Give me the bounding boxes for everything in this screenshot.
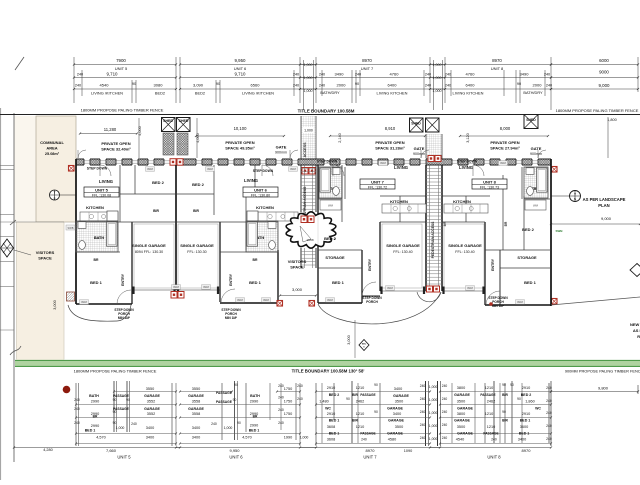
svg-text:3400: 3400 — [192, 436, 200, 440]
svg-text:240: 240 — [74, 398, 80, 402]
svg-text:90: 90 — [132, 82, 136, 86]
svg-text:240: 240 — [491, 438, 497, 442]
svg-text:PRIVATE OPEN: PRIVATE OPEN — [101, 141, 130, 146]
svg-text:240: 240 — [131, 422, 137, 426]
svg-text:3552: 3552 — [147, 400, 155, 404]
svg-text:10,100: 10,100 — [234, 126, 247, 131]
svg-text:SHED: SHED — [179, 119, 189, 123]
svg-text:VISITORS: VISITORS — [36, 250, 55, 255]
svg-text:SINGLE GARAGE: SINGLE GARAGE — [448, 243, 482, 248]
svg-text:2910: 2910 — [522, 386, 530, 390]
svg-text:11,280: 11,280 — [104, 127, 117, 132]
svg-text:1800MM PROPOSE PALING TIMBER F: 1800MM PROPOSE PALING TIMBER FENCE — [556, 108, 639, 113]
svg-text:240: 240 — [546, 399, 552, 403]
svg-text:90: 90 — [374, 383, 378, 387]
svg-text:90: 90 — [233, 398, 237, 402]
svg-text:AREA: AREA — [46, 146, 57, 151]
svg-text:4580: 4580 — [388, 438, 396, 442]
svg-text:BED 1: BED 1 — [520, 419, 531, 423]
svg-text:3400: 3400 — [518, 438, 526, 442]
svg-text:GARAGE: GARAGE — [188, 407, 204, 411]
svg-text:1,000: 1,000 — [429, 411, 438, 415]
svg-text:4,570: 4,570 — [242, 436, 252, 440]
svg-text:STEP DOWN: STEP DOWN — [87, 167, 108, 171]
svg-text:240: 240 — [293, 73, 299, 77]
svg-text:240: 240 — [420, 423, 426, 427]
svg-text:3400: 3400 — [192, 426, 200, 430]
svg-text:1210: 1210 — [487, 425, 495, 429]
svg-text:SHED: SHED — [411, 122, 421, 126]
svg-text:4,570: 4,570 — [96, 436, 106, 440]
svg-text:SPACE: SPACE — [38, 256, 52, 261]
svg-text:3500: 3500 — [395, 425, 403, 429]
svg-text:90: 90 — [517, 82, 521, 86]
svg-text:3,000: 3,000 — [53, 300, 57, 310]
svg-text:LIVING: LIVING — [459, 165, 473, 170]
svg-text:T: T — [574, 192, 576, 196]
svg-text:UNIT 6: UNIT 6 — [234, 66, 247, 71]
svg-text:240: 240 — [420, 384, 426, 388]
svg-text:240: 240 — [77, 73, 83, 77]
svg-text:90: 90 — [234, 383, 238, 387]
svg-text:WM: WM — [533, 204, 539, 208]
svg-text:240: 240 — [445, 84, 451, 88]
svg-text:FFL :130.72: FFL :130.72 — [368, 185, 387, 189]
svg-text:0918: 0918 — [517, 300, 523, 304]
svg-text:BED 2: BED 2 — [329, 393, 340, 397]
svg-text:GARAGE: GARAGE — [144, 407, 160, 411]
svg-text:WC: WC — [325, 407, 331, 411]
svg-text:LIVING /KITCHEN: LIVING /KITCHEN — [91, 91, 123, 96]
svg-text:KITCHEN: KITCHEN — [390, 199, 408, 204]
svg-text:BR: BR — [253, 414, 258, 418]
svg-text:240: 240 — [75, 84, 81, 88]
svg-text:PASSAGE: PASSAGE — [360, 393, 375, 397]
svg-text:6000: 6000 — [599, 58, 609, 63]
svg-text:BATH: BATH — [250, 394, 260, 398]
svg-text:0918: 0918 — [147, 167, 153, 171]
svg-text:GARAGE: GARAGE — [454, 419, 470, 423]
svg-text:1,000: 1,000 — [304, 129, 313, 133]
svg-text:T: T — [54, 191, 56, 195]
svg-text:1,000: 1,000 — [116, 426, 125, 430]
svg-text:GATE: GATE — [414, 146, 425, 151]
svg-text:2990: 2990 — [91, 424, 99, 428]
svg-text:1210: 1210 — [356, 412, 364, 416]
svg-text:1,000: 1,000 — [429, 437, 438, 441]
svg-text:1750: 1750 — [284, 412, 292, 416]
svg-text:240: 240 — [442, 397, 448, 401]
svg-text:AS PER COUNCIL: AS PER COUNCIL — [633, 328, 640, 333]
svg-text:0918: 0918 — [290, 167, 296, 171]
svg-text:240: 240 — [211, 422, 217, 426]
svg-text:FFL :130.73: FFL :130.73 — [480, 185, 499, 189]
svg-text:BIR: BIR — [193, 209, 199, 213]
svg-text:900mm: 900mm — [275, 151, 287, 155]
svg-text:240: 240 — [546, 386, 552, 390]
svg-text:3608: 3608 — [327, 438, 335, 442]
svg-text:3550: 3550 — [192, 387, 200, 391]
svg-text:2462: 2462 — [487, 400, 495, 404]
svg-text:3800: 3800 — [457, 412, 465, 416]
svg-text:GARAGE: GARAGE — [387, 407, 403, 411]
svg-text:3400: 3400 — [393, 412, 401, 416]
svg-text:1,000: 1,000 — [429, 424, 438, 428]
svg-text:8970: 8970 — [362, 58, 372, 63]
svg-text:1800MM PROPOSE PALING TIMBER F: 1800MM PROPOSE PALING TIMBER FENCE — [74, 369, 157, 374]
svg-text:2000: 2000 — [337, 83, 347, 88]
svg-text:6560: 6560 — [251, 83, 261, 88]
svg-text:GARAGE: GARAGE — [457, 407, 473, 411]
svg-text:BR: BR — [94, 258, 99, 262]
svg-text:PASSAGE: PASSAGE — [480, 393, 495, 397]
svg-text:240: 240 — [74, 421, 80, 425]
svg-text:7900: 7900 — [116, 58, 126, 63]
svg-text:BATH/DRY: BATH/DRY — [320, 90, 340, 95]
svg-text:2000: 2000 — [533, 83, 543, 88]
svg-text:90: 90 — [237, 421, 241, 425]
svg-text:UNIT 7: UNIT 7 — [371, 180, 384, 185]
svg-text:1,000: 1,000 — [433, 63, 442, 67]
svg-text:BED 2: BED 2 — [522, 227, 535, 232]
svg-text:UNIT 7: UNIT 7 — [363, 454, 377, 459]
svg-text:0918: 0918 — [81, 300, 87, 304]
svg-text:WM: WM — [328, 204, 334, 208]
svg-text:4540: 4540 — [100, 83, 110, 88]
svg-text:BED 1: BED 1 — [329, 432, 340, 436]
svg-text:9000: 9000 — [599, 70, 609, 75]
svg-text:BR: BR — [253, 258, 258, 262]
svg-text:0918: 0918 — [207, 167, 213, 171]
svg-text:BIR: BIR — [153, 209, 159, 213]
svg-text:9,000: 9,000 — [599, 83, 611, 88]
svg-text:9,000: 9,000 — [601, 216, 612, 221]
svg-text:MIN 1M²: MIN 1M² — [492, 304, 504, 308]
svg-text:240: 240 — [546, 424, 552, 428]
svg-text:SPACE 27.94m²: SPACE 27.94m² — [490, 146, 520, 151]
svg-text:90: 90 — [517, 397, 521, 401]
svg-text:PASSAGE: PASSAGE — [483, 432, 498, 436]
svg-text:WC: WC — [535, 407, 541, 411]
svg-text:3500: 3500 — [457, 425, 465, 429]
svg-text:KITCHEN: KITCHEN — [256, 205, 274, 210]
svg-text:240: 240 — [442, 436, 448, 440]
svg-text:240: 240 — [361, 438, 367, 442]
svg-text:4,000: 4,000 — [138, 126, 142, 136]
svg-text:240: 240 — [546, 411, 552, 415]
svg-text:1210: 1210 — [485, 386, 493, 390]
svg-text:3,000: 3,000 — [347, 335, 351, 345]
svg-text:90: 90 — [502, 383, 506, 387]
svg-text:PEDESTRIAN ACCESS: PEDESTRIAN ACCESS — [431, 221, 435, 259]
svg-text:0918: 0918 — [380, 161, 386, 165]
svg-text:3,000: 3,000 — [292, 287, 303, 292]
svg-text:SPACE 31.28m²: SPACE 31.28m² — [375, 146, 405, 151]
svg-text:GARAGE: GARAGE — [144, 394, 160, 398]
svg-text:UNIT 8: UNIT 8 — [491, 66, 504, 71]
svg-text:240: 240 — [297, 384, 303, 388]
svg-text:COMMUNAL: COMMUNAL — [40, 140, 64, 145]
svg-text:NEW CROSSOVER: NEW CROSSOVER — [630, 322, 640, 327]
svg-text:3400: 3400 — [394, 387, 402, 391]
svg-text:3490: 3490 — [520, 72, 530, 77]
svg-text:240: 240 — [74, 407, 80, 411]
svg-text:3500: 3500 — [457, 400, 465, 404]
svg-text:STEP DOWN: STEP DOWN — [457, 160, 478, 164]
svg-text:240: 240 — [297, 397, 303, 401]
svg-text:9,800: 9,800 — [598, 386, 609, 391]
svg-text:BED 2: BED 2 — [324, 236, 337, 241]
svg-text:90: 90 — [126, 398, 130, 402]
svg-text:BED2: BED2 — [195, 91, 205, 96]
svg-text:PASSAGE: PASSAGE — [360, 432, 375, 436]
svg-text:VISITORS: VISITORS — [288, 259, 307, 264]
svg-text:90: 90 — [510, 383, 514, 387]
svg-text:1,480: 1,480 — [319, 400, 329, 404]
svg-text:4,000: 4,000 — [196, 133, 200, 143]
svg-text:1990: 1990 — [284, 436, 292, 440]
svg-text:1750: 1750 — [284, 387, 292, 391]
svg-text:BED 1: BED 1 — [329, 419, 340, 423]
svg-text:4760: 4760 — [390, 72, 400, 77]
svg-text:90: 90 — [216, 82, 220, 86]
svg-text:1,000: 1,000 — [304, 76, 313, 80]
svg-text:UNIT 6: UNIT 6 — [254, 188, 267, 193]
svg-text:4540: 4540 — [456, 438, 464, 442]
svg-text:240: 240 — [355, 73, 361, 77]
svg-text:240: 240 — [442, 410, 448, 414]
svg-text:1,000: 1,000 — [429, 398, 438, 402]
svg-text:BED2: BED2 — [155, 91, 165, 96]
svg-text:BED 1: BED 1 — [90, 280, 103, 285]
svg-text:GARAGE: GARAGE — [387, 432, 403, 436]
svg-text:8094 FFL: 130.30: 8094 FFL: 130.30 — [135, 250, 163, 254]
svg-text:3558: 3558 — [192, 400, 200, 404]
svg-text:3500: 3500 — [395, 400, 403, 404]
svg-text:BR: BR — [443, 221, 447, 226]
svg-text:1,860: 1,860 — [525, 400, 535, 404]
svg-text:240: 240 — [319, 73, 325, 77]
svg-text:2990: 2990 — [91, 400, 99, 404]
svg-text:LIVING: LIVING — [394, 165, 408, 170]
svg-text:KITCHEN: KITCHEN — [453, 199, 471, 204]
svg-text:240: 240 — [293, 84, 299, 88]
svg-text:3800: 3800 — [457, 386, 465, 390]
svg-text:1090: 1090 — [404, 449, 412, 453]
svg-text:SEC: SEC — [362, 343, 367, 345]
svg-text:3600: 3600 — [520, 425, 528, 429]
svg-text:FFL :130.08: FFL :130.08 — [92, 193, 111, 197]
svg-text:90: 90 — [355, 82, 359, 86]
svg-text:1,000: 1,000 — [433, 89, 442, 93]
svg-text:90: 90 — [346, 397, 350, 401]
svg-text:LIVING KITCHEN: LIVING KITCHEN — [453, 91, 484, 96]
svg-text:3608: 3608 — [327, 425, 335, 429]
svg-text:2462: 2462 — [356, 400, 364, 404]
svg-text:3552: 3552 — [147, 412, 155, 416]
svg-text:ENTRY: ENTRY — [121, 273, 125, 286]
svg-text:BATH/DRY: BATH/DRY — [523, 90, 543, 95]
svg-text:7,660: 7,660 — [106, 448, 117, 453]
svg-text:90: 90 — [374, 410, 378, 414]
svg-text:GARAGE: GARAGE — [457, 432, 473, 436]
svg-text:13/08: 13/08 — [307, 238, 314, 242]
svg-text:UNIT 5: UNIT 5 — [115, 66, 128, 71]
svg-text:UNIT 6: UNIT 6 — [229, 454, 243, 459]
svg-text:240: 240 — [420, 410, 426, 414]
svg-text:9,950: 9,950 — [235, 58, 247, 63]
svg-text:3550: 3550 — [146, 387, 154, 391]
svg-text:BED 1: BED 1 — [85, 429, 96, 433]
svg-text:3490: 3490 — [335, 72, 345, 77]
svg-text:8,910: 8,910 — [385, 126, 396, 131]
svg-text:6400: 6400 — [388, 83, 398, 88]
svg-text:FFL: 130.40: FFL: 130.40 — [393, 250, 412, 254]
svg-text:S: S — [53, 196, 55, 200]
svg-text:0918: 0918 — [173, 285, 179, 289]
svg-text:KITCHEN: KITCHEN — [86, 205, 104, 210]
svg-text:FFL: 130.40: FFL: 130.40 — [455, 250, 474, 254]
svg-text:90: 90 — [113, 398, 117, 402]
svg-text:BIR: BIR — [352, 393, 358, 397]
svg-text:8970: 8970 — [492, 58, 502, 63]
svg-text:3,090: 3,090 — [193, 83, 204, 88]
svg-text:GATE: GATE — [276, 145, 287, 150]
svg-text:UNIT 5: UNIT 5 — [95, 188, 108, 193]
svg-text:25.08m²: 25.08m² — [45, 152, 60, 156]
svg-text:PASSAGE: PASSAGE — [216, 400, 233, 404]
svg-text:BIR: BIR — [352, 419, 358, 423]
svg-text:UNIT 8: UNIT 8 — [487, 454, 501, 459]
svg-text:1,800: 1,800 — [607, 118, 617, 122]
svg-text:SINGLE GARAGE: SINGLE GARAGE — [132, 243, 166, 248]
svg-text:240: 240 — [278, 421, 284, 425]
svg-text:240: 240 — [546, 437, 552, 441]
svg-text:8970: 8970 — [522, 448, 532, 453]
svg-text:STEP DOWN: STEP DOWN — [317, 160, 338, 164]
svg-text:STORAGE: STORAGE — [517, 255, 537, 260]
svg-text:1,000: 1,000 — [224, 426, 233, 430]
svg-text:3,120: 3,120 — [466, 133, 470, 143]
svg-text:1,000: 1,000 — [304, 89, 313, 93]
svg-text:1210: 1210 — [485, 412, 493, 416]
svg-text:PRIVATE OPEN: PRIVATE OPEN — [225, 140, 254, 145]
svg-text:S: S — [574, 197, 576, 201]
svg-text:1,000: 1,000 — [300, 436, 309, 440]
svg-text:GARAGE: GARAGE — [188, 394, 204, 398]
svg-text:UNIT 7: UNIT 7 — [361, 66, 374, 71]
svg-text:SHED: SHED — [163, 119, 173, 123]
svg-text:GATE: GATE — [531, 146, 542, 151]
svg-text:TITLE BOUNDARY 100.58M 130° 58: TITLE BOUNDARY 100.58M 130° 58' — [292, 369, 365, 374]
svg-text:9,710: 9,710 — [107, 72, 119, 77]
svg-text:STEP DOWN: STEP DOWN — [253, 169, 274, 173]
svg-text:0918: 0918 — [500, 161, 506, 165]
svg-text:LIVING: LIVING — [244, 178, 258, 183]
svg-text:BED 1: BED 1 — [524, 280, 537, 285]
svg-text:2990: 2990 — [250, 400, 258, 404]
svg-text:GARAGE: GARAGE — [388, 419, 404, 423]
svg-text:4,280: 4,280 — [43, 448, 53, 452]
svg-text:BED 1: BED 1 — [519, 432, 530, 436]
svg-text:0918: 0918 — [387, 286, 393, 290]
svg-text:BR: BR — [93, 414, 98, 418]
svg-text:BED 1: BED 1 — [249, 429, 260, 433]
svg-text:1210: 1210 — [356, 425, 364, 429]
svg-text:TITLE BOUNDARY 100.58M: TITLE BOUNDARY 100.58M — [298, 109, 355, 114]
svg-text:ENTRY: ENTRY — [229, 273, 233, 286]
svg-text:SWB: SWB — [556, 229, 564, 233]
svg-text:6400: 6400 — [466, 83, 476, 88]
svg-text:8,000: 8,000 — [500, 126, 511, 131]
svg-text:240: 240 — [442, 384, 448, 388]
svg-text:3400: 3400 — [146, 426, 154, 430]
svg-text:4760: 4760 — [466, 72, 476, 77]
svg-text:90: 90 — [113, 421, 117, 425]
svg-text:GARAGE: GARAGE — [454, 393, 470, 397]
svg-text:PASSAGE: PASSAGE — [216, 391, 233, 395]
svg-text:1800MM PROPOSE PALING TIMBER F: 1800MM PROPOSE PALING TIMBER FENCE — [81, 108, 164, 113]
svg-text:1750: 1750 — [284, 400, 292, 404]
svg-text:240: 240 — [425, 84, 431, 88]
svg-text:BED 2: BED 2 — [152, 180, 165, 185]
svg-text:BIR: BIR — [502, 419, 508, 423]
svg-text:FFL: 130.30: FFL: 130.30 — [187, 250, 206, 254]
svg-text:9,950: 9,950 — [229, 448, 240, 453]
svg-text:240: 240 — [544, 73, 550, 77]
svg-text:PLAN: PLAN — [598, 203, 609, 208]
svg-text:1,000: 1,000 — [429, 385, 438, 389]
svg-text:SPACE 32.40m²: SPACE 32.40m² — [101, 147, 131, 152]
svg-text:BR: BR — [504, 221, 508, 226]
svg-text:3558: 3558 — [192, 412, 200, 416]
svg-text:240: 240 — [420, 436, 426, 440]
svg-text:2990: 2990 — [250, 424, 258, 428]
svg-text:ENTRY: ENTRY — [368, 258, 372, 271]
svg-text:240: 240 — [546, 84, 552, 88]
svg-text:UNIT 5: UNIT 5 — [117, 454, 131, 459]
svg-text:STORAGE: STORAGE — [325, 255, 345, 260]
svg-text:SWB: SWB — [68, 226, 74, 230]
svg-text:0918: 0918 — [203, 285, 209, 289]
svg-text:1210: 1210 — [356, 386, 364, 390]
svg-text:SPACE 49.35m²: SPACE 49.35m² — [225, 146, 255, 151]
svg-text:2,140: 2,140 — [338, 133, 342, 143]
svg-text:2910: 2910 — [327, 412, 335, 416]
svg-text:1,000: 1,000 — [304, 63, 313, 67]
svg-text:0918: 0918 — [327, 298, 333, 302]
svg-text:PORCH: PORCH — [366, 300, 378, 304]
svg-text:SINGLE GARAGE: SINGLE GARAGE — [180, 243, 214, 248]
svg-text:8970: 8970 — [366, 448, 376, 453]
svg-text:SHED: SHED — [526, 118, 536, 122]
svg-text:LIVING: LIVING — [99, 179, 113, 184]
svg-text:SINGLE GARAGE: SINGLE GARAGE — [386, 243, 420, 248]
svg-text:240: 240 — [425, 73, 431, 77]
svg-text:LIVING KITCHEN: LIVING KITCHEN — [377, 91, 408, 96]
svg-text:2910: 2910 — [327, 386, 335, 390]
svg-text:GARAGE: GARAGE — [393, 394, 409, 398]
svg-text:BED 2: BED 2 — [521, 393, 532, 397]
svg-text:LIVING /KITCHEN: LIVING /KITCHEN — [242, 91, 274, 96]
svg-text:BED 1: BED 1 — [249, 280, 262, 285]
svg-text:BIR: BIR — [502, 393, 508, 397]
svg-text:BATH: BATH — [89, 394, 99, 398]
svg-text:900MM PROPOSE PALING TIMBER FE: 900MM PROPOSE PALING TIMBER FENCE — [565, 369, 640, 374]
svg-text:0918: 0918 — [263, 298, 269, 302]
svg-text:240: 240 — [420, 397, 426, 401]
svg-text:3080: 3080 — [154, 83, 164, 88]
